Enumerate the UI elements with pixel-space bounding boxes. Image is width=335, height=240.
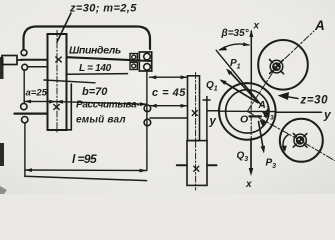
- y axis left arm: [208, 110, 219, 112]
- lower left bearing circle lower: [22, 117, 28, 123]
- svg-text:O: O: [240, 114, 248, 126]
- y axis through gear: [219, 110, 276, 112]
- dimension l=95 line: [25, 169, 147, 172]
- arrowhead at P3 root: [260, 120, 267, 127]
- lower gear hub ring: [294, 134, 306, 146]
- lower hub hatch spokes: [293, 134, 307, 148]
- bearing square lower: [130, 62, 137, 69]
- housing cover arc: [24, 27, 151, 50]
- b dim arrow right: [140, 102, 147, 106]
- svg-text:c = 45: c = 45: [152, 87, 186, 99]
- l dim arrow right: [140, 169, 147, 173]
- bearing circle upper left bottom: [22, 64, 28, 70]
- scan artifact left edge upper: [0, 57, 4, 79]
- gear centerline (dash-dot): [56, 31, 58, 135]
- middle column right extra vertical: [206, 97, 208, 141]
- calculated shaft line: [15, 112, 48, 114]
- svg-text:β=35°: β=35°: [221, 28, 250, 39]
- svg-text:z=30: z=30: [300, 95, 329, 107]
- dimension b=70 line: [56, 102, 147, 105]
- scan artifact left edge lower: [0, 143, 4, 166]
- lower connecting line: [150, 117, 187, 119]
- short bar at A1: [250, 115, 262, 117]
- svg-text:у: у: [209, 116, 217, 128]
- beta arc: [220, 44, 250, 50]
- arrowhead at A3: [262, 112, 270, 119]
- bracket bearing circle upper: [144, 53, 151, 60]
- middle column centerline dash-dot: [195, 73, 197, 191]
- coupling rect left end of spindle: [2, 56, 17, 65]
- axis line O to gear3 (dash-dot): [247, 111, 334, 160]
- svg-text:емый вал: емый вал: [76, 115, 126, 126]
- z=30 leader arrow: [288, 97, 298, 99]
- spindle lower line left segment: [28, 66, 48, 68]
- dimension L=140 line: [67, 73, 128, 76]
- x axis top arrow: [250, 31, 252, 84]
- axis line O to A (dash-dot): [247, 31, 314, 111]
- force P3 arrow: [259, 122, 264, 150]
- lower shaft right bearing circle lower: [144, 119, 151, 126]
- upper line arrow left: [150, 75, 157, 79]
- svg-text:b=70: b=70: [82, 86, 108, 98]
- scan artifact bottom left corner: [0, 186, 7, 194]
- gear mesh divider line: [44, 80, 95, 83]
- a dim arrow right: [49, 100, 56, 104]
- extension line bottom left vertical: [24, 123, 26, 177]
- svg-text:z=30; m=2,5: z=30; m=2,5: [69, 3, 137, 15]
- dimension c=45 upper line: [150, 76, 188, 78]
- shaft stub right of column: [207, 164, 217, 166]
- bearing circle upper left top: [21, 50, 27, 56]
- lower left bearing circle upper: [21, 103, 27, 109]
- bearing square upper: [130, 54, 137, 61]
- upper gear hub disc: [272, 62, 281, 71]
- bearing ball lower small: [132, 64, 136, 68]
- dimension c=45 line: [150, 105, 187, 107]
- gear z=30 on spindle (side view column): [48, 34, 67, 130]
- rotation direction arrow: [283, 135, 288, 150]
- leader line to gear: [57, 13, 71, 42]
- lower gear hub disc: [296, 136, 305, 145]
- c dim arrow left: [150, 104, 157, 108]
- lower shaft right bearing circle upper: [144, 105, 151, 112]
- center mark x upper: [56, 57, 62, 62]
- force Q3 arrow (x axis down): [250, 140, 252, 169]
- c dim arrow right: [181, 104, 188, 108]
- upper gear hub ring: [270, 60, 283, 73]
- svg-text:x: x: [245, 179, 252, 190]
- right bearing bracket: [139, 52, 151, 71]
- svg-text:L = 140: L = 140: [79, 63, 112, 74]
- b dim arrow left: [56, 100, 63, 104]
- svg-text:x: x: [253, 21, 260, 32]
- force P1 arrow: [229, 71, 259, 103]
- middle column x mark upper: [192, 111, 197, 116]
- svg-text:a=25: a=25: [26, 88, 48, 99]
- shaft stub left of column: [177, 164, 187, 166]
- middle column x mark lower: [194, 166, 199, 171]
- bottom second line: [25, 176, 147, 180]
- svg-text:Шпиндель: Шпиндель: [69, 45, 121, 57]
- l dim arrow left: [25, 168, 32, 172]
- svg-text:l =95: l =95: [72, 152, 97, 166]
- extension line right bearing down: [146, 71, 148, 170]
- force Q1 arrow: [222, 81, 258, 103]
- pressure line: [216, 50, 262, 106]
- dimension a=25 line: [24, 100, 56, 102]
- central gear pitch circle: [226, 90, 269, 133]
- lower gear rim extra edge: [67, 84, 72, 130]
- upper line arrow right: [181, 75, 188, 79]
- middle gear column upper part: [188, 76, 200, 141]
- spindle stub: [17, 59, 22, 61]
- spindle shaft main segment: [67, 57, 151, 61]
- upper gear circle: [258, 40, 308, 90]
- svg-text:A: A: [314, 18, 325, 33]
- svg-text:у: у: [323, 108, 332, 122]
- center mark x lower: [54, 105, 60, 110]
- spindle shaft left segment: [21, 59, 48, 61]
- bracket bearing circle lower: [144, 64, 151, 71]
- central gear outer circle: [219, 83, 276, 140]
- svg-text:Рассчитыва-: Рассчитыва-: [76, 100, 140, 111]
- upper hub hatch spokes: [270, 60, 284, 74]
- middle gear column lower part: [187, 141, 207, 186]
- small tick above y arm: [203, 99, 210, 101]
- extension line left bearing vertical: [23, 70, 25, 103]
- lower gear circle: [280, 119, 323, 162]
- x axis inside gear dash: [250, 84, 252, 140]
- bearing ball upper small: [132, 55, 136, 59]
- y axis right arm: [276, 111, 322, 113]
- a dim arrow left: [24, 100, 31, 104]
